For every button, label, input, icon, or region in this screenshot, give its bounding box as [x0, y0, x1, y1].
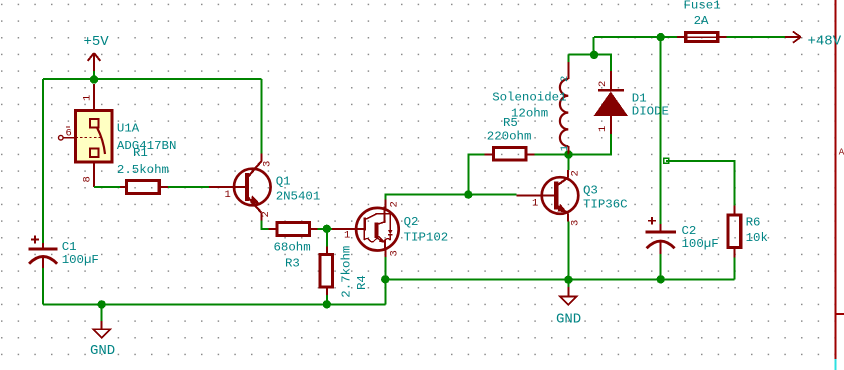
wire R1 to Q1 base [168, 186, 209, 188]
diode D1 [594, 71, 629, 134]
svg-text:2.7kohm: 2.7kohm [340, 246, 354, 298]
svg-text:GND: GND [556, 311, 581, 327]
svg-text:+48V: +48V [808, 34, 842, 50]
svg-text:C1: C1 [62, 240, 77, 254]
svg-text:1: 1 [597, 126, 609, 132]
svg-text:2.5kohm: 2.5kohm [117, 163, 169, 177]
wire pin8 to R1 [94, 186, 120, 188]
resistor R6 [728, 206, 741, 258]
capacitor C2 [645, 217, 675, 254]
wire R6 bottom to rail [733, 258, 735, 280]
svg-text:Q1: Q1 [276, 175, 291, 189]
switch U1A ADG417BN [59, 84, 113, 187]
svg-text:1: 1 [225, 189, 231, 201]
junction base node Q2 [323, 225, 331, 233]
junction Q3 emitter node [564, 276, 572, 284]
wire Q1 collector drop [260, 79, 262, 154]
svg-text:R6: R6 [746, 216, 761, 230]
ground left [90, 321, 115, 359]
wire R3 to junction [318, 228, 332, 230]
power +48V [785, 31, 842, 49]
svg-text:100µF: 100µF [682, 237, 719, 251]
wire R6 top branch [666, 161, 734, 206]
wire junction down to R4 [326, 229, 328, 247]
wire GND stub middle [567, 279, 569, 287]
capacitor C1 [29, 236, 58, 269]
svg-text:12ohm: 12ohm [511, 107, 548, 121]
wire Q2 collector up and right [385, 195, 516, 200]
svg-text:2: 2 [260, 211, 272, 217]
svg-text:2: 2 [559, 76, 571, 82]
svg-text:TIP102: TIP102 [404, 230, 449, 244]
svg-text:6: 6 [66, 127, 72, 139]
wire Q2 emitter down [384, 257, 386, 279]
wire bottom-left ground rail [43, 303, 385, 305]
transistor Q2 TIP102 [332, 200, 399, 258]
wire junction to Q2 base [327, 228, 332, 230]
resistor R3 [269, 223, 318, 236]
svg-text:1: 1 [344, 230, 350, 242]
svg-text:3: 3 [389, 250, 401, 256]
node unconnected end square [664, 158, 669, 163]
power +5V [84, 34, 110, 79]
svg-text:DIODE: DIODE [632, 105, 669, 119]
svg-text:100µF: 100µF [62, 253, 99, 267]
svg-text:2: 2 [570, 170, 582, 176]
wire C2 branch vertical [660, 37, 662, 224]
wire fuse to +48V [727, 36, 785, 38]
wire Q3 emitter down to rail [567, 222, 569, 280]
svg-text:GND: GND [90, 343, 115, 359]
wire diode anode to solenoid node [568, 134, 611, 154]
svg-text:3: 3 [262, 161, 274, 167]
ground middle [556, 287, 581, 327]
wire solenoid top to cathode node [568, 54, 594, 56]
wire junction up to R5 [468, 154, 484, 194]
svg-text:R4: R4 [355, 275, 369, 290]
svg-text:10k: 10k [746, 231, 768, 245]
svg-text:68ohm: 68ohm [274, 241, 311, 255]
svg-text:2: 2 [389, 201, 401, 207]
svg-text:Solenoide1: Solenoide1 [492, 91, 566, 105]
resistor R4 [320, 246, 333, 295]
svg-text:220ohm: 220ohm [487, 129, 532, 143]
svg-text:Q3: Q3 [583, 184, 598, 198]
svg-text:2N5401: 2N5401 [276, 190, 321, 204]
svg-text:2A: 2A [694, 14, 709, 28]
junction solenoid bottom node [564, 150, 573, 159]
resistor R1 [120, 181, 168, 194]
svg-text:R3: R3 [285, 257, 300, 271]
svg-text:1: 1 [532, 198, 538, 210]
svg-text:D1: D1 [632, 92, 647, 106]
wire +5V horizontal rail [43, 78, 261, 80]
svg-text:C2: C2 [682, 224, 697, 238]
junction GND1 node [97, 300, 105, 308]
wire cathode node to diode [594, 55, 611, 71]
svg-text:8: 8 [82, 176, 94, 182]
svg-text:1: 1 [559, 145, 571, 151]
svg-text:R1: R1 [133, 146, 148, 160]
wire C1 to bottom rail [42, 268, 44, 304]
svg-text:Fuse1: Fuse1 [684, 0, 721, 13]
wire emitter ground rail [385, 278, 734, 280]
junction C2 bottom node [657, 275, 665, 283]
junction C2 top node [657, 33, 665, 41]
wire R5 to solenoid node [535, 153, 569, 155]
svg-text:1: 1 [82, 95, 94, 101]
junction Q3 base node [464, 190, 472, 198]
sheet frame right border [836, 0, 844, 370]
wire riser to emitter rail [384, 279, 386, 304]
wire Q1 emitter to R3 [261, 221, 268, 230]
junction cathode node [590, 51, 599, 60]
svg-text:2: 2 [597, 81, 609, 87]
svg-text:TIP36C: TIP36C [583, 198, 628, 212]
resistor R5 [485, 147, 535, 160]
wire cathode node up to +48V rail [593, 37, 595, 55]
junction R4 bottom [323, 300, 331, 308]
transistor Q3 TIP36C [517, 170, 579, 222]
wire C2 bottom to rail [660, 254, 662, 279]
wire GND stub left [101, 304, 103, 321]
svg-text:U1A: U1A [117, 122, 140, 136]
svg-text:Q2: Q2 [404, 215, 419, 229]
svg-text:3: 3 [570, 220, 582, 226]
wire +48V rail [594, 36, 677, 38]
junction Q2 emitter node [381, 275, 389, 283]
transistor Q1 2N5401 [209, 154, 271, 221]
svg-text:+5V: +5V [84, 34, 110, 50]
wire node down to Q3 collector [567, 154, 569, 170]
junction +5V node [90, 75, 98, 83]
fuse Fuse1 [677, 33, 727, 42]
wire left vertical to C1 [42, 79, 44, 243]
wire R4 to bottom rail [326, 295, 328, 304]
inductor Solenoide1 [560, 55, 568, 155]
svg-text:A: A [839, 148, 844, 158]
